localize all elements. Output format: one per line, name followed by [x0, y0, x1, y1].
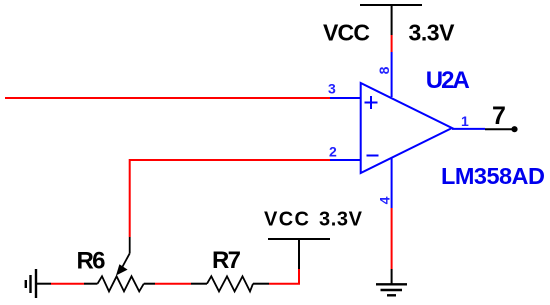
- svg-text:2: 2: [329, 143, 337, 159]
- svg-text:7: 7: [492, 102, 506, 130]
- svg-text:8: 8: [376, 66, 392, 74]
- svg-text:R6: R6: [77, 248, 106, 275]
- svg-text:3.3V: 3.3V: [409, 20, 456, 46]
- svg-text:VCC: VCC: [323, 20, 370, 46]
- svg-text:3.3V: 3.3V: [319, 209, 363, 231]
- svg-text:LM358AD: LM358AD: [441, 163, 545, 189]
- svg-text:R7: R7: [212, 247, 241, 274]
- svg-text:U2A: U2A: [426, 67, 470, 94]
- svg-text:1: 1: [461, 113, 469, 129]
- svg-text:4: 4: [376, 196, 392, 204]
- svg-text:VCC: VCC: [264, 209, 309, 231]
- svg-text:3: 3: [328, 81, 336, 97]
